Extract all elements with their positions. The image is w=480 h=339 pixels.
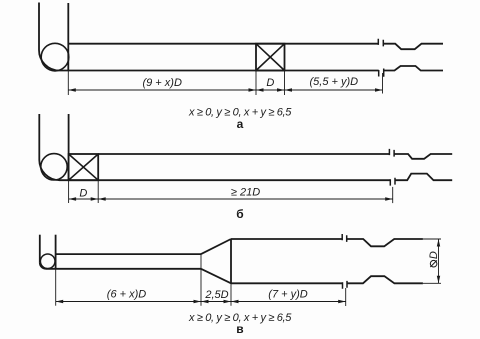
riser outer wall (b) [38,114,40,160]
riser outer wall (a) [38,3,40,51]
break ticks top wall (a) [378,39,383,47]
riser inner wall (b) [68,114,70,180]
svg-text:а: а [237,117,244,131]
dimension 2,5D (v) [201,300,231,304]
wide pipe bottom wall (v) [231,276,423,283]
extension line riser (a) [67,70,69,95]
dimension D (b) [69,197,99,201]
wide pipe top wall (v) [231,239,423,246]
orifice box (a) [256,44,285,71]
narrow pipe bottom wall (v) [46,268,201,270]
dimension D (a) [256,88,285,92]
diameter dimension line (v) [437,239,440,283]
break ticks bottom wall (b) [390,178,395,186]
break ticks top wall (v) [342,234,347,242]
dimension >=21D (b) [98,197,393,201]
extension line box right (a) [284,71,286,96]
dimension (9 + x)D (a) [68,88,256,92]
elbow outer bend arc (a) [39,50,59,71]
diameter label OD (v) [428,251,440,267]
svg-text:D: D [266,77,274,89]
svg-text:б: б [236,207,243,221]
svg-text:≥ 21D: ≥ 21D [231,187,260,199]
dimension (6 + x)D (v) [56,300,201,304]
extension line box left (a) [255,71,257,96]
dimension (5,5 + y)D (a) [285,88,383,92]
extension line cone big end (v) [230,283,232,305]
orifice box (b) [69,154,99,180]
extension line right end (a) [382,73,384,94]
extension line cone small end (v) [200,254,202,306]
svg-text:(6 + x)D: (6 + x)D [107,289,146,301]
riser outer wall (v) [39,235,41,263]
svg-text:2,5D: 2,5D [204,289,228,301]
conical diffuser (v) [201,239,231,283]
pipe bottom wall (b) [60,174,453,181]
elbow circle (b) [41,154,67,180]
extension line right end (b) [392,187,394,203]
elbow circle (v) [40,254,55,269]
elbow circle (a) [41,43,69,71]
extension line right end (v) [345,288,347,306]
svg-text:(7 + y)D: (7 + y)D [268,289,307,301]
narrow pipe top wall (v) [56,253,201,255]
break ticks bottom wall (v) [343,281,348,289]
svg-text:(5,5 + y)D: (5,5 + y)D [309,76,358,88]
pipe top wall (a) [68,44,443,50]
riser inner wall (v) [55,235,57,270]
elbow outer bend arc (v) [40,263,46,269]
riser inner wall (a) [67,3,69,70]
svg-text:в: в [236,322,243,336]
extension line pipe end top (v) [423,238,441,240]
svg-text:D: D [428,251,440,259]
break ticks top wall (b) [389,149,394,157]
extension line pipe end bottom (v) [423,282,441,284]
svg-text:(9 + x)D: (9 + x)D [142,77,181,89]
pipe bottom wall (a) [59,66,443,71]
svg-text:D: D [79,187,87,199]
break ticks bottom wall (a) [379,69,384,77]
extension line box right (b) [97,181,99,204]
extension line riser/box left (b) [68,180,70,203]
pipe top wall (b) [98,154,452,159]
elbow outer bend arc (b) [39,160,59,180]
dimension (7 + y)D (v) [231,300,346,304]
extension line riser (v) [55,270,57,306]
